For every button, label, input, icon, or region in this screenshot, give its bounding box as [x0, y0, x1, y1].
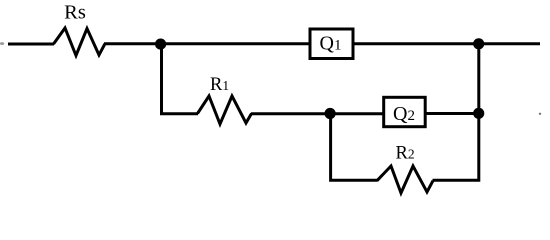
- speck (faint artifact at left edge): [0, 42, 4, 45]
- wire: Rs to Q1 (through node A): [104, 42, 310, 45]
- svg-text:R1: R1: [210, 75, 229, 95]
- resistor Rs: [54, 28, 106, 56]
- resistor R1: [198, 96, 252, 124]
- transistor Q2 (block): [384, 97, 426, 126]
- svg-text:Rs: Rs: [64, 2, 86, 24]
- label Rs: [64, 2, 86, 24]
- speck (faint artifact right of node D): [539, 113, 541, 115]
- node D (junction, middle right): [473, 108, 484, 119]
- resistor R2: [377, 166, 433, 193]
- label R2: [396, 144, 415, 164]
- wire: left input lead: [8, 43, 54, 46]
- transistor Q1 (block): [310, 29, 353, 59]
- wire: R1 to Q2 (through node C): [251, 112, 384, 115]
- wire: node A down and to R1: [162, 44, 199, 114]
- label Q1: [320, 33, 342, 55]
- label Q2: [393, 103, 415, 125]
- wire: Q1 to right edge (through node B): [353, 42, 540, 45]
- wire: R2 to right vertical and up to node B: [433, 44, 479, 182]
- svg-text:R2: R2: [396, 144, 415, 164]
- label R1: [210, 75, 229, 95]
- wire: Q2 to node D: [425, 112, 479, 115]
- wire: node C down and to R2: [331, 114, 378, 181]
- node C (junction, middle): [325, 108, 336, 119]
- node A (junction, top left): [155, 39, 166, 50]
- node B (junction, top right): [473, 38, 484, 49]
